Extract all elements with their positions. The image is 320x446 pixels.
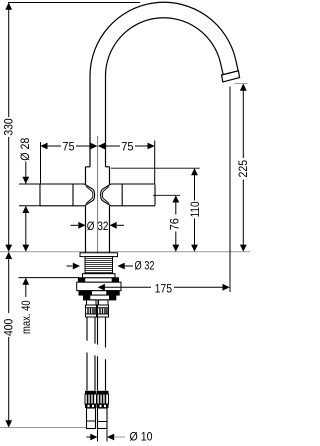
left hose lower crimp [85, 391, 97, 408]
right hose end tube [98, 408, 108, 429]
svg-text:Ø 10: Ø 10 [130, 429, 153, 443]
spout tip aerator band [222, 71, 240, 82]
75 right extension line [154, 141, 156, 185]
175 extension line from spout tip [229, 87, 231, 293]
330 top extension line [8, 2, 140, 4]
left hose crimp fitting [86, 305, 97, 317]
svg-text:175: 175 [155, 281, 173, 295]
dimension 330 line [5, 3, 12, 252]
svg-text:76: 76 [168, 218, 182, 230]
left hose end tube [87, 408, 96, 429]
svg-text:75: 75 [121, 139, 133, 153]
dimension 225 [240, 84, 247, 252]
hose connector stubs [87, 300, 109, 305]
76 extension line [153, 194, 180, 196]
spout inner arc [106, 18, 224, 76]
svg-text:75: 75 [62, 139, 74, 153]
hose break gap [78, 339, 116, 362]
max40 extension line [19, 277, 80, 279]
svg-text:225: 225 [236, 160, 250, 178]
dimension 75 right [98, 143, 155, 150]
svg-text:Ø 32: Ø 32 [87, 219, 109, 233]
svg-text:400: 400 [2, 318, 16, 336]
threaded shank [85, 257, 113, 274]
dimension O10 [87, 430, 126, 442]
dimension max40 [22, 245, 29, 297]
mounting nut wings [78, 278, 118, 282]
dimension 400 line [5, 252, 12, 428]
110 extension line [111, 167, 200, 169]
right hose tube [98, 317, 106, 391]
spout outer arc [90, 2, 238, 76]
svg-text:110: 110 [188, 201, 202, 217]
right hose lower crimp [97, 391, 109, 408]
body centerline [97, 136, 99, 308]
dimension 175 [98, 284, 230, 291]
dimension O32 upper [71, 222, 125, 229]
countertop reference line [0, 251, 250, 253]
dimension O28 [22, 162, 29, 246]
dimension 110 [191, 168, 198, 252]
400 bottom extension line [0, 427, 86, 429]
mounting nut body [77, 282, 121, 291]
hose nipple block [84, 295, 116, 300]
left hose tube [87, 317, 95, 391]
riser pipe right wall [105, 76, 107, 167]
right handle cone nose [101, 184, 111, 206]
O28 extension bottom [19, 205, 40, 207]
base flange [80, 253, 118, 257]
riser pipe left wall [89, 76, 91, 167]
svg-text:Ø 32: Ø 32 [135, 259, 155, 273]
dimension 75 left [40, 143, 97, 150]
body step shoulder [86, 166, 110, 168]
svg-text:Ø 28: Ø 28 [18, 137, 32, 160]
mounting washer upper [83, 274, 116, 278]
225 extension line at spout tip [235, 83, 248, 85]
right handle grip [111, 184, 155, 206]
dimension 76 [172, 195, 179, 252]
lower washer [79, 291, 119, 295]
right hose crimp fitting [98, 305, 109, 317]
left handle grip [40, 184, 84, 206]
body right wall [109, 167, 111, 253]
dimension O32 flange [67, 263, 134, 270]
body left wall [85, 167, 87, 253]
O28 extension top [19, 183, 40, 185]
left handle cone nose [84, 184, 94, 206]
svg-text:max. 40: max. 40 [19, 300, 33, 334]
75 left extension line [40, 142, 42, 184]
svg-text:330: 330 [2, 118, 16, 136]
